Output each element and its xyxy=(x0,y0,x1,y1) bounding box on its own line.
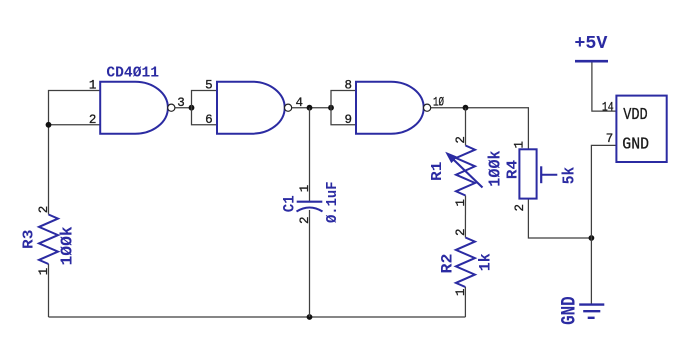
capacitor C1 top plate xyxy=(297,201,323,203)
svg-text:R1: R1 xyxy=(429,162,446,182)
svg-text:1: 1 xyxy=(37,268,51,276)
wire: R2 bottom to rail xyxy=(464,287,466,317)
wire: pin4 output to gate3 inputs xyxy=(292,107,331,109)
svg-text:R3: R3 xyxy=(21,230,38,250)
gate U1C output bubble xyxy=(424,104,431,111)
svg-text:3: 3 xyxy=(177,96,185,110)
svg-text:GND: GND xyxy=(622,136,649,155)
svg-text:2: 2 xyxy=(454,228,468,236)
svg-text:1Ø: 1Ø xyxy=(433,96,444,110)
svg-text:1: 1 xyxy=(298,185,312,193)
svg-text:5: 5 xyxy=(205,79,213,93)
capacitor C1 curved plate xyxy=(297,208,323,212)
resistor R2 1k xyxy=(456,238,475,288)
svg-text:1k: 1k xyxy=(476,253,494,271)
svg-text:+5V: +5V xyxy=(574,34,607,54)
svg-text:5k: 5k xyxy=(559,167,578,185)
node: junction at gate1 pin2 / R3 xyxy=(46,122,52,128)
svg-text:GND: GND xyxy=(559,296,582,325)
svg-text:2: 2 xyxy=(37,206,51,214)
svg-text:14: 14 xyxy=(602,100,614,114)
gate U1B output bubble xyxy=(285,104,292,111)
svg-text:CD4Ø11: CD4Ø11 xyxy=(106,65,159,82)
wire: C1 top xyxy=(309,108,311,201)
svg-text:2: 2 xyxy=(454,136,468,144)
power symbol +5V bar xyxy=(575,60,608,63)
R1 wiper arrow xyxy=(454,160,483,188)
svg-text:1ØØk: 1ØØk xyxy=(485,150,504,186)
node: junction GND net xyxy=(589,235,595,241)
resistor R1 100k potentiometer xyxy=(456,146,475,196)
svg-text:8: 8 xyxy=(344,79,352,93)
ground symbol xyxy=(579,303,604,305)
wire: gate2 input bracket xyxy=(192,91,218,125)
wire: R1 to R2 xyxy=(464,196,466,238)
resistor R3 100k xyxy=(39,215,58,265)
svg-text:1: 1 xyxy=(513,141,527,149)
gate U1A NAND (pins 1,2 -> 3) xyxy=(100,82,168,134)
IC U1 power box VDD/GND xyxy=(616,96,666,162)
wire: gate1 pin1 input stub + left drop xyxy=(49,91,101,215)
svg-text:1: 1 xyxy=(454,199,468,207)
wire: pin10 output to R4 top xyxy=(431,108,528,150)
wire: pin7 left and down to GND xyxy=(591,145,616,304)
wire: pin3 output to gate2 inputs xyxy=(175,107,192,109)
R4 wiper tap xyxy=(540,166,542,183)
gate U1A output bubble xyxy=(168,104,175,111)
node: junction pin3 xyxy=(189,105,195,111)
svg-text:6: 6 xyxy=(205,113,213,127)
wire: gate3 input bracket xyxy=(331,91,356,125)
svg-text:1: 1 xyxy=(89,79,97,93)
wire: pin10 node down to R1 xyxy=(465,108,467,146)
svg-text:VDD: VDD xyxy=(623,106,648,125)
svg-text:C1: C1 xyxy=(280,195,298,212)
svg-text:R4: R4 xyxy=(504,160,521,180)
svg-text:1: 1 xyxy=(454,288,468,296)
wire: R3 bottom to bottom rail xyxy=(48,264,50,317)
svg-text:1ØØk: 1ØØk xyxy=(57,226,76,265)
wire: +5V bar down to pin14 xyxy=(592,62,617,112)
svg-text:9: 9 xyxy=(344,113,352,127)
wire: gate1 pin2 input stub xyxy=(49,124,101,126)
svg-text:2: 2 xyxy=(298,216,312,224)
svg-text:Ø.1uF: Ø.1uF xyxy=(324,182,341,224)
node: junction pin10 / R1 xyxy=(463,105,469,111)
svg-text:2: 2 xyxy=(89,113,97,127)
gate U1B NAND (pins 5,6 -> 4) xyxy=(217,82,285,134)
node: junction C1 bottom on rail xyxy=(307,314,313,320)
node: junction gate3 inputs xyxy=(328,105,334,111)
wire: bottom rail xyxy=(49,316,466,318)
svg-text:R2: R2 xyxy=(438,254,456,274)
svg-text:4: 4 xyxy=(296,96,304,110)
wire: C1 bottom xyxy=(309,210,311,317)
svg-text:7: 7 xyxy=(606,132,614,146)
wire: R4 bottom to GND net xyxy=(528,199,591,238)
resistor R4 5k trimmer body xyxy=(519,149,536,198)
node: junction pin4 / C1 xyxy=(307,105,313,111)
svg-text:2: 2 xyxy=(513,204,527,212)
gate U1C NAND (pins 8,9 -> 10) xyxy=(356,82,424,134)
